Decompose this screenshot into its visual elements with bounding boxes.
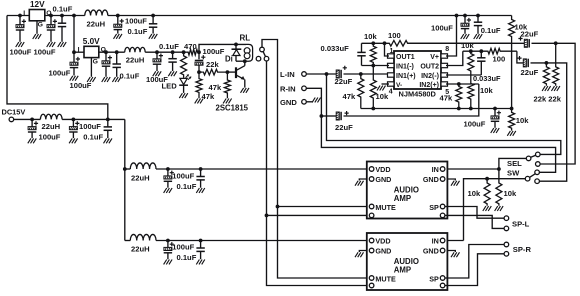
svg-text:100uF: 100uF [172,171,194,180]
svg-text:22uH: 22uH [131,244,150,253]
wire bias riser [511,43,513,108]
wire 5V rail [145,51,187,53]
node rail-cap1 [18,14,22,18]
svg-text:GND: GND [375,175,391,184]
switch SEL SW pole2 contact b [535,179,540,184]
ground left (IC2 upper) [355,181,358,186]
svg-text:R-IN: R-IN [280,84,296,93]
inductor 22uH (5V rail) [125,47,146,52]
resistor 10k (bias to gnd) [509,109,515,131]
node amp1 vdd cap1 [166,167,170,171]
capacitor 100uF (5V rail) [156,52,158,59]
node bias 100uF [493,107,497,111]
terminal DC15V [9,117,14,122]
wire amp2 SP2 to SP-R [445,254,504,286]
node rail V+ riser [455,14,459,18]
wire amp1 SP1 to SP-L [445,207,504,219]
svg-text:V+: V+ [430,54,439,61]
capacitor 100uF (12V reg output) [50,16,52,25]
wire amp1 VDD [156,168,367,170]
svg-text:5.0V: 5.0V [83,37,100,46]
svg-text:IN2(+): IN2(+) [419,82,439,89]
pin stub OUT2 [441,63,448,67]
relay coil RL [246,44,253,61]
node 12V rail cap4 [116,14,120,18]
switch arm pole1 [531,155,537,157]
wire amp2 IN [445,240,464,242]
wire mute2 to amp1 [267,214,367,216]
capacitor 0.1uF (5V reg output) [116,52,118,64]
svg-text:100uF: 100uF [70,81,92,90]
svg-text:SEL: SEL [507,159,522,168]
wire ch1 out to cap [408,42,524,44]
svg-text:10k: 10k [376,92,389,101]
wire IN2- net [446,74,481,76]
wire OUT2 riser [446,51,463,65]
wire DC15V [14,118,41,120]
wire 5V reg ground lead [90,58,92,77]
node IN2+ 47k [457,82,461,86]
svg-text:22k: 22k [206,60,219,69]
wire GND-R lead (IC3 lower) [447,251,455,253]
wire bias rail [361,108,512,110]
wire node A riser to relay [199,44,246,59]
wire ch2 out net [463,50,488,52]
node A after 470 [197,50,201,54]
resistor 47k (base to gnd) [224,72,230,98]
voltage regulator 5.0V [84,46,99,57]
transistor 2SC1815 Q1 [235,67,237,78]
pin stub V+ [441,54,448,58]
switch SEL SW pole1 common [526,156,531,161]
resistor 10k (ch2 feedback) [468,51,474,75]
wire 12V reg ground lead [36,21,38,34]
node reg-out cap2 [49,14,53,18]
wire ch2 out jog [517,51,523,63]
inductor 22uH (amp1 VDD) [130,163,156,169]
capacitor 100uF (amp2 VDD) [167,241,169,248]
pin GND R (IC3 lower) [440,248,445,253]
ground (22k ch1) [551,86,554,91]
capacitor 100uF (timer) [195,59,203,61]
svg-text:100uF: 100uF [172,242,194,251]
wire mute1 to amp1 [278,206,367,208]
ground left (IC3 lower) [355,252,358,257]
node ch1 fb top [371,41,375,45]
wire relay NO to mute bus2 [267,61,367,286]
pin aux L (IC2 upper) [369,213,374,218]
wire V- to ground [382,83,390,85]
svg-text:MUTE: MUTE [375,274,396,283]
svg-text:I: I [23,10,25,17]
capacitor 100uF (5V reg output) [105,52,107,61]
capacitor 22uF (ch1 out) [524,39,527,47]
wire IN2+ net [446,83,479,85]
pin GND R (IC2 upper) [440,177,445,182]
pin SP R (IC3 lower) [440,276,445,281]
node amp2 vdd cap1 [166,239,170,243]
capacitor 100uF (5V reg input) [73,52,75,62]
node bias ch2-10k [469,107,473,111]
node bias ch1-10k [371,107,375,111]
svg-text:0.1uF: 0.1uF [177,253,197,262]
wire 12V rail [108,15,512,17]
node LED branch [182,50,186,54]
capacitor 0.1uF (DC15V out) [107,119,109,127]
terminal GND input [302,100,307,105]
node ch2 fb top [469,49,473,53]
node amp2 vdd cap2 [199,239,203,243]
svg-text:L-IN: L-IN [280,70,295,79]
node reg-out cap3 [60,14,64,18]
node rail cap 100uF [463,14,467,18]
svg-text:47k: 47k [209,83,222,92]
svg-text:10k: 10k [468,189,481,198]
ground (22k ch2) [542,86,545,91]
resistor 10k (12V to ch1 out) [509,16,515,44]
wire IN1- net [362,65,390,67]
svg-text:22uH: 22uH [126,55,145,64]
node 12V-to-5V branch [72,14,76,18]
inductor 22uH (amp2 VDD) [130,234,156,240]
svg-text:G: G [38,22,43,29]
wire filter1 lead [125,168,131,170]
resistor 22k (ch2 out load) [543,63,549,86]
capacitor 0.1uF (12V reg output) [61,16,63,24]
terminal SP-L b [504,226,509,231]
svg-text:1: 1 [390,48,394,55]
node diode top [234,43,238,47]
node base-47k [226,70,230,74]
wire GND terminal [306,101,313,103]
capacitor 0.1uF (amp2 VDD) [200,241,202,249]
wire L to IN1+ [344,73,390,75]
resistor 10k (IN2- to bias) [468,75,474,109]
svg-text:SP: SP [429,203,439,212]
node L-IN branch [325,72,329,76]
pin IN R (IC3 lower) [440,238,445,243]
svg-text:GND: GND [423,175,439,184]
wire ch1 out to SW [532,43,576,164]
terminal L-IN [302,72,307,77]
svg-text:GND: GND [280,98,297,107]
wire GND-L lead (IC3 lower) [359,251,367,253]
capacitor 100uF (amp1 VDD) [167,169,169,176]
svg-text:SW: SW [507,168,520,177]
audio amp IC2 upper box [367,162,448,219]
wire 12V reg output [45,15,85,17]
ground (emitter) [241,88,244,93]
svg-text:0.1uF: 0.1uF [159,42,179,51]
wire amp1 SP2 to SP-L [445,215,504,228]
node ch1 22k [554,41,558,45]
relay contact arm [263,51,266,57]
svg-text:100uF: 100uF [125,17,147,26]
voltage regulator 12V [29,10,45,21]
svg-text:22uH: 22uH [131,173,150,182]
resistor 10k (ch1 feedback) [370,43,376,65]
capacitor 0.033uF (ch2 feedback) [480,51,482,58]
node rail cap 0.1uF [476,14,480,18]
wire R-IN [306,88,555,172]
ground right (IC2 upper) [451,181,454,186]
svg-text:22uH: 22uH [87,19,106,28]
node mute1 branch [276,205,280,209]
node 5V out cap6 [104,50,108,54]
svg-text:0.1uF: 0.1uF [481,26,501,35]
node 5V out cap7 [115,50,119,54]
node ch2 22k [545,61,549,65]
svg-text:V-: V- [396,82,402,89]
svg-text:0.1uF: 0.1uF [83,132,103,141]
relay contact NC [256,56,261,61]
relay contact common [260,47,265,52]
resistor 22k (ch1 out load) [553,43,559,86]
capacitor 100uF (12V reg input) [19,16,21,25]
pin SP R (IC2 upper) [440,204,445,209]
inductor 22uH (DC15V) [40,114,62,119]
svg-text:100uF 100uF: 100uF 100uF [10,48,56,57]
ground (10k amp1) [495,206,498,211]
wire pole1 common to amp1 IN [499,158,526,182]
svg-text:VDD: VDD [375,236,390,245]
svg-text:22uF: 22uF [335,123,353,132]
terminal SP-L a [504,216,509,221]
capacitor 22uF (R input) [336,112,339,120]
svg-text:22k 22k: 22k 22k [534,95,562,104]
svg-text:IN: IN [432,236,439,245]
pin GND L (IC2 upper) [369,177,374,182]
resistor 100 (ch2 output) [488,48,517,54]
ground (LED) [179,93,182,98]
node mute2 branch [265,214,269,218]
svg-text:47k: 47k [343,92,356,101]
wire ch2 out to SW [531,63,567,181]
pin aux R (IC3 lower) [440,283,445,288]
ground (input jack) [312,98,315,103]
svg-text:0.1uF: 0.1uF [128,27,148,36]
capacitor 22uF (L input) [336,70,339,78]
svg-text:8: 8 [445,46,449,53]
ground (47k node B) [195,99,198,104]
node DC15V to 12Vreg [106,118,110,122]
wire GND-R lead (IC2 upper) [447,179,455,181]
capacitor 100uF (bias) [494,109,496,116]
pin stub V- [388,82,395,86]
switch SEL SW pole1 contact b [536,162,541,167]
wire 5V reg output [99,51,125,53]
wire 12V input rail [7,15,29,17]
resistor LED series [181,52,187,78]
ground (12V reg) [33,34,36,39]
pin stub IN2(+) [441,82,448,86]
svg-text:100: 100 [493,55,506,64]
svg-text:22uF: 22uF [521,68,539,77]
wire 12V-to-5Vreg riser [73,16,75,53]
svg-text:RL: RL [240,34,251,43]
svg-text:22uF: 22uF [335,77,353,86]
ground (10k amp2) [483,206,486,211]
node amp1 vdd cap2 [199,167,203,171]
svg-text:10k: 10k [480,86,493,95]
resistor 47k (node B to gnd) [196,72,202,98]
audio amp IC3 lower box [367,233,448,290]
ground (47k base) [223,99,226,104]
terminal SP-R b [504,252,509,257]
svg-text:10k: 10k [516,116,529,125]
switch SEL SW pole2 common [525,176,530,181]
capacitor 0.033uF (ch1 feedback) [361,43,363,52]
wire filter2 lead [125,240,131,242]
node 5V reg input [72,50,76,54]
svg-text:100uF: 100uF [49,69,71,78]
pin stub IN1(-) [388,63,395,67]
capacitor 0.1uF (5V rail) [172,52,174,59]
node IN1+ 47k [359,72,363,76]
resistor 10k (amp1 in pulldown) [496,183,502,206]
svg-text:10k: 10k [461,41,474,50]
svg-text:47k: 47k [202,92,215,101]
svg-text:2SC1815: 2SC1815 [216,103,249,112]
wire L-IN to selector line [327,74,561,154]
node collector-diode-coil [243,59,247,63]
svg-text:100uF: 100uF [431,23,453,32]
svg-text:10k: 10k [504,189,517,198]
svg-text:LED: LED [162,82,178,91]
svg-text:100uF: 100uF [39,132,61,141]
pin MUTE L (IC2 upper) [369,204,374,209]
pin aux L (IC3 lower) [369,283,374,288]
svg-text:22uF: 22uF [521,30,539,39]
resistor 10k (IN1- to bias) [370,66,376,109]
ground right (IC3 lower) [451,252,454,257]
svg-text:12V: 12V [30,0,45,9]
node ch2 cap top [479,49,483,53]
svg-text:I: I [78,47,80,54]
wire base network [199,71,202,73]
node amp1 IN junction [497,167,501,171]
wire base [227,71,235,73]
svg-text:SP: SP [429,274,439,283]
wire relay common to mute bus [262,40,367,279]
svg-text:OUT1: OUT1 [396,54,415,61]
node filter1 branch [123,167,127,171]
pin MUTE L (IC3 lower) [369,276,374,281]
wire OUT1 riser [385,43,390,56]
svg-text:0.1uF: 0.1uF [53,5,73,14]
node B timer divider [197,70,201,74]
node bias divider [510,107,514,111]
relay contact NO [264,56,269,61]
capacitor 22uF (ch2 out) [523,59,526,67]
pin stub OUT1 [388,54,395,58]
svg-text:0.1uF: 0.1uF [177,182,197,191]
wire amp2 SP1 to SP-R [445,245,504,279]
capacitor 0.1uF (12V rail) [152,16,154,24]
svg-text:IN: IN [432,165,439,174]
ground (5V reg) [87,77,90,82]
svg-text:VDD: VDD [375,165,390,174]
switch SEL SW pole2 contact a [535,170,540,175]
svg-text:GND: GND [423,246,439,255]
svg-text:IN1(+): IN1(+) [396,73,416,80]
node R-IN branch [320,114,324,118]
svg-text:SP-L: SP-L [512,219,530,228]
node DC15V cap2 [72,118,76,122]
wire relay coil bottom [236,60,246,62]
wire 5V reg input [74,51,84,53]
node 5V rail cap8 [155,50,159,54]
pin GND L (IC3 lower) [369,248,374,253]
op-amp U1 NJM4580D box [394,51,441,89]
ground (V-) [377,86,380,91]
wire amp2 VDD [156,240,367,242]
svg-text:IN2(-): IN2(-) [421,73,439,80]
terminal R-IN [302,86,307,91]
resistor 47k (IN1+ to bias) [358,74,364,109]
node 12V rail cap5 [151,14,155,18]
svg-text:NJM4580D: NJM4580D [399,90,437,99]
svg-text:10k: 10k [364,32,377,41]
node 5V rail cap9 [171,50,175,54]
wire amp1 IN [445,168,499,170]
capacitor 100uF (DC15V out) [72,119,74,126]
svg-text:22uH: 22uH [42,122,61,131]
resistor 470 (5V rail) [187,49,199,55]
pin IN R (IC2 upper) [440,167,445,172]
diode Di (flyback) [235,44,237,49]
capacitor 0.1uF (V+ decouple) [477,16,479,23]
pin VDD L (IC3 lower) [369,238,374,243]
capacitor 100uF (V+ decouple) [464,16,466,24]
svg-text:DC15V: DC15V [2,108,26,117]
svg-text:100uF: 100uF [464,119,486,128]
svg-text:IN1(-): IN1(-) [396,63,414,70]
capacitor 100uF (DC15V in) [31,119,33,126]
pin stub IN2(-) [441,73,448,77]
svg-text:G: G [93,59,98,66]
node IN1- junction [371,64,375,68]
wire GND-L lead (IC2 upper) [359,179,367,181]
node bias ch2-47k [457,107,461,111]
pin VDD L (IC2 upper) [369,167,374,172]
svg-text:47k: 47k [440,94,453,103]
ground (bias 10k) [507,131,510,136]
svg-text:0.1uF: 0.1uF [120,72,140,81]
svg-text:SP-R: SP-R [513,245,532,254]
svg-text:4: 4 [389,88,393,95]
svg-text:AMP: AMP [394,266,411,275]
capacitor 100uF (12V rail) [117,16,119,25]
capacitor 0.1uF (amp1 VDD) [200,169,202,177]
pin stub IN1(+) [388,73,395,77]
svg-text:MUTE: MUTE [375,203,396,212]
node OUT1 net [383,41,387,45]
svg-text:0.033uF: 0.033uF [321,44,350,53]
resistor 22k (base) [202,69,227,75]
wire pole2 common to amp2 IN [464,179,526,241]
wire ch1 out net [362,42,390,44]
svg-text:100: 100 [388,31,401,40]
resistor 10k (amp2 in pulldown) [484,179,490,206]
pin aux R (IC2 upper) [440,213,445,218]
inductor 22uH (12V rail) [85,10,108,15]
wire L-IN [306,73,336,75]
node 10k amp2 junction [485,177,489,181]
svg-text:100uF: 100uF [79,122,101,131]
svg-text:Di: Di [225,54,233,63]
svg-text:100uF: 100uF [203,47,225,56]
